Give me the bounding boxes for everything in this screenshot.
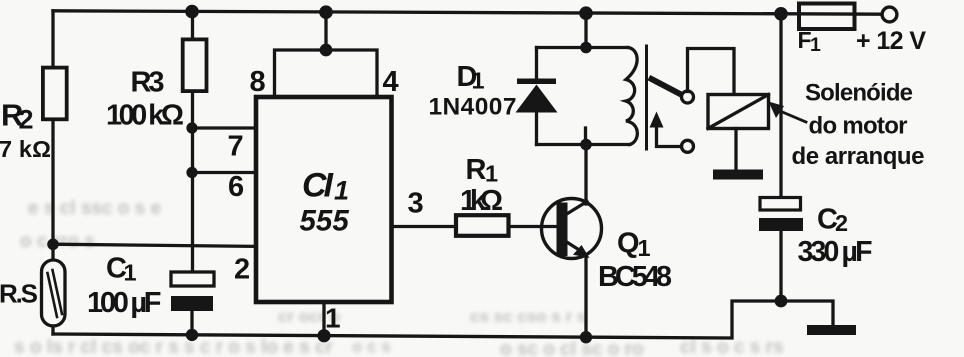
svg-text:BC548: BC548: [598, 261, 672, 293]
svg-text:330 µF: 330 µF: [798, 236, 873, 268]
svg-text:3: 3: [408, 188, 424, 220]
svg-text:4: 4: [383, 66, 399, 98]
svg-text:de arranque: de arranque: [792, 143, 925, 170]
svg-text:e s cl ssc o s e: e s cl ssc o s e: [28, 198, 161, 219]
svg-text:1kΩ: 1kΩ: [460, 185, 503, 217]
svg-text:2: 2: [835, 210, 848, 236]
svg-text:o c s: o c s: [352, 337, 391, 356]
svg-text:cl s o c s rs: cl s o c s rs: [680, 337, 784, 357]
svg-text:1: 1: [638, 235, 651, 261]
svg-text:R.S: R.S: [0, 279, 38, 309]
svg-text:2: 2: [19, 105, 34, 135]
svg-text:+ 12 V: + 12 V: [856, 27, 926, 55]
svg-text:1: 1: [485, 161, 498, 187]
svg-text:555: 555: [300, 205, 350, 238]
svg-text:1: 1: [124, 260, 137, 286]
svg-text:cs sc cso s r s: cs sc cso s r s: [470, 307, 586, 326]
svg-text:1: 1: [810, 34, 821, 56]
svg-text:100 kΩ: 100 kΩ: [106, 100, 184, 132]
svg-text:o sc o cl sc o ro: o sc o cl sc o ro: [500, 339, 644, 357]
svg-text:1: 1: [325, 303, 341, 334]
svg-text:8: 8: [250, 66, 266, 98]
svg-text:2: 2: [234, 254, 250, 286]
svg-text:Q: Q: [617, 228, 640, 260]
svg-text:Solenóide: Solenóide: [805, 80, 913, 107]
svg-text:s o ls r cl cs oc r s s c: s o ls r cl cs oc r s s c r o s lo e s c…: [14, 337, 334, 357]
svg-text:do motor: do motor: [809, 113, 908, 140]
svg-text:100 µF: 100 µF: [87, 287, 162, 319]
svg-text:7: 7: [228, 131, 244, 163]
svg-text:R: R: [466, 154, 487, 186]
svg-text:1N4007: 1N4007: [429, 94, 517, 121]
svg-text:R3: R3: [131, 67, 165, 99]
svg-text:CI: CI: [302, 167, 335, 205]
svg-text:7 kΩ: 7 kΩ: [0, 136, 51, 162]
svg-text:6: 6: [228, 171, 244, 203]
svg-text:1: 1: [334, 176, 349, 206]
svg-text:1: 1: [472, 68, 485, 94]
